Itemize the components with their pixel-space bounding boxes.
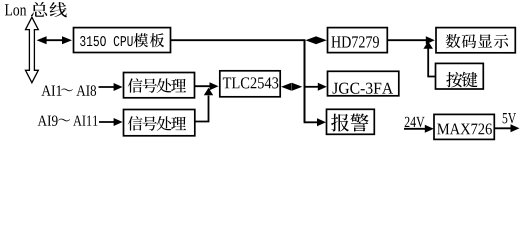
bus vertical wire [304,39,306,122]
arrowhead right toward bus [292,83,303,91]
wire HD7279 to display [387,39,427,41]
arrowhead 5V out [511,124,520,132]
box signal processing 1 [124,73,195,98]
wire 5V output [494,127,512,129]
wire sig2 elbow up [195,96,209,122]
label '按键' (keys) [446,72,477,88]
wire 24V into regulator [404,128,427,130]
tilde of AI9-AI11 [58,119,70,122]
arrowhead into alarm [317,118,326,126]
box alarm [327,109,375,134]
net label AI1 [41,85,61,95]
wire bus to alarm [305,120,321,123]
label '信号处理' 1 [128,78,186,93]
tilde of AI1-AI8 [61,88,73,91]
label 'TLC2543' [223,77,278,88]
label 'MAX726' [437,124,492,135]
arrowhead into display [426,36,435,44]
label '3150 CPU' [80,36,133,46]
arrowhead up into ADC wire [204,88,213,96]
arrowhead into signal processing 2 [114,118,123,126]
net label text '总线' (bus) [31,2,67,17]
Lon bus vertical hollow double arrow [26,17,39,83]
arrowhead into signal processing 1 [114,83,123,91]
box U2 TLC2543 ADC [220,71,280,97]
wire keys elbow up [428,49,435,77]
arrowhead up from keys [423,41,433,49]
box keys [436,63,484,89]
wire sig1 to ADC [195,85,212,87]
arrowhead into HD7279 [316,36,327,44]
label '报警' (alarm) [331,114,368,132]
wire bus to JGC-3FA [305,86,321,88]
box K1 JGC-3FA relay [328,71,399,96]
box digital display [436,28,515,53]
net label 5V output [503,113,516,123]
net label 24V input [405,117,425,127]
arrowhead right into CPU box [62,36,72,44]
arrowhead left into bus [305,36,316,44]
box U4 MAX726 regulator [434,114,494,139]
label '信号处理' 2 [128,116,186,131]
arrowhead left into ADC [281,83,292,91]
label 'HD7279' [331,36,379,47]
wire AI1-AI8 input [99,86,117,88]
net label AI11 [73,116,97,126]
box U1 3150 CPU module [74,28,171,53]
arrowhead left into Lon bus [37,36,47,44]
box U3 HD7279 display driver [328,28,388,53]
arrowhead into ADC [210,82,219,90]
box signal processing 2 [124,110,195,136]
net label text 'Lon' [5,4,26,15]
wire AI9-AI11 input [99,121,116,123]
label 'JGC-3FA' [333,83,394,94]
label '数码显示' (digital display) [446,34,509,48]
wire CPU to bus node [171,39,305,41]
net label AI9 [38,116,58,126]
wire Lon bus to CPU [44,39,64,41]
net label AI8 [76,85,96,95]
arrowhead into JGC-3FA [318,83,327,91]
label '模板' (module) [134,33,165,47]
arrowhead into MAX726 [425,125,434,133]
